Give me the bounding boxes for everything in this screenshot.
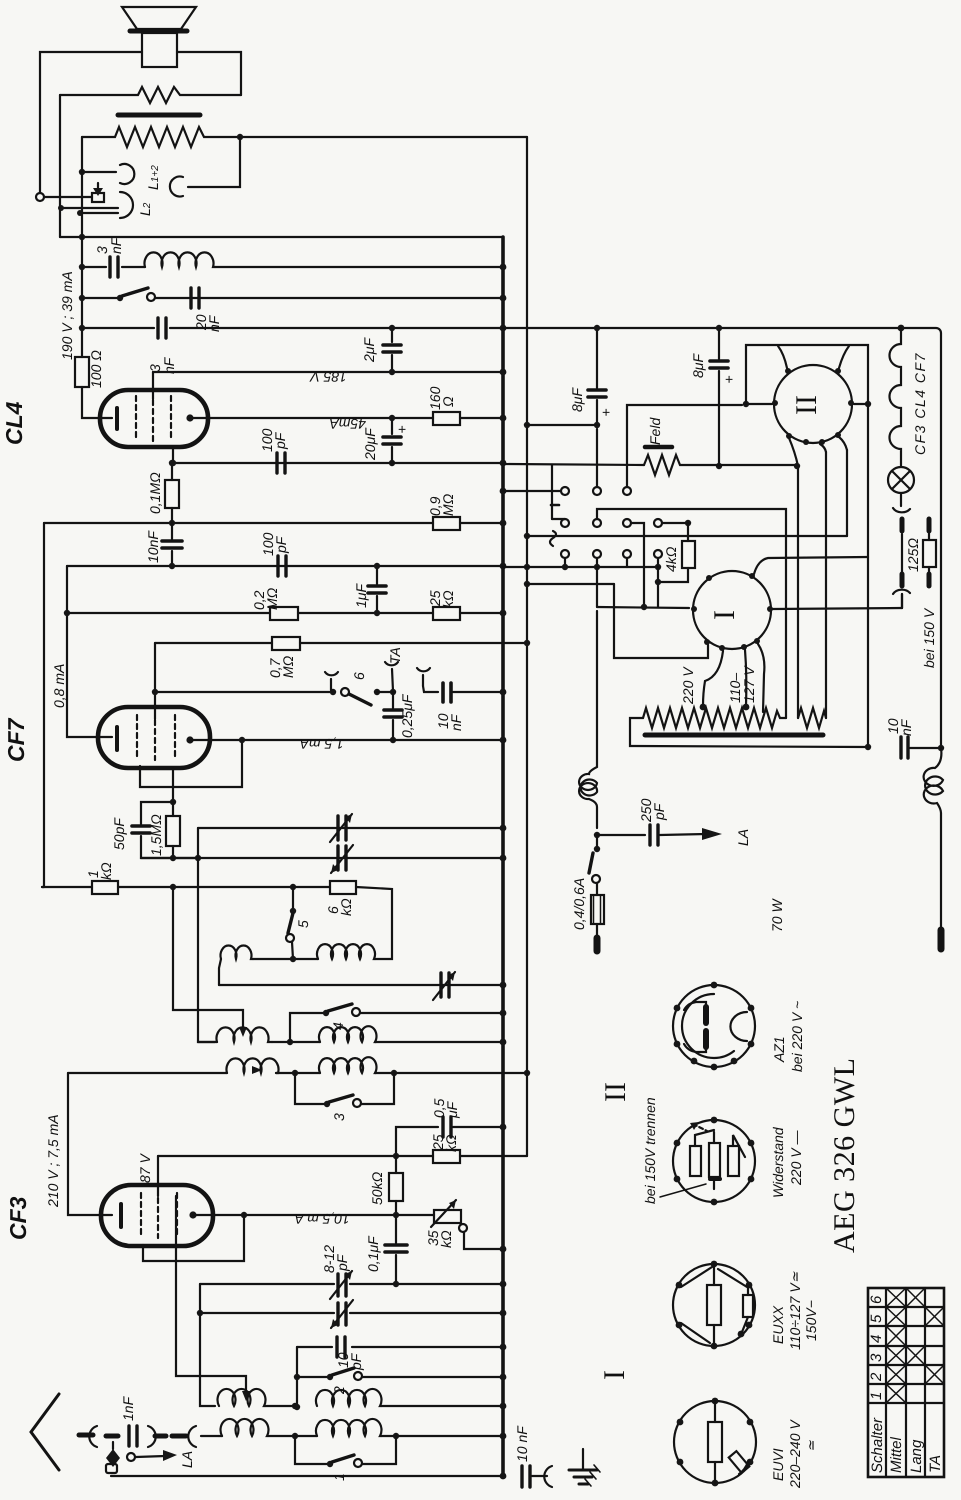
node bbox=[287, 1039, 293, 1045]
wire anode row bbox=[190, 417, 503, 419]
label 160 ohm bbox=[427, 386, 456, 410]
wire cathode drop bbox=[67, 566, 112, 737]
svg-text:2: 2 bbox=[868, 1372, 885, 1382]
node bbox=[79, 264, 85, 270]
capacitor 20nF bbox=[191, 288, 199, 308]
selector row A bbox=[503, 429, 631, 495]
wire socketI right bbox=[773, 594, 902, 609]
node bbox=[393, 1153, 399, 1159]
terminal circle bbox=[36, 193, 44, 201]
wire bbox=[59, 95, 61, 237]
wire vert 297 bbox=[294, 1347, 300, 1410]
svg-text:100 Ω: 100 Ω bbox=[88, 350, 104, 388]
svg-text:+: + bbox=[725, 371, 733, 387]
svg-text:≃: ≃ bbox=[803, 1440, 819, 1452]
label 100pF2 bbox=[260, 532, 289, 556]
pickup jack bbox=[44, 183, 118, 216]
svg-text:185 V: 185 V bbox=[309, 369, 347, 385]
svg-text:210 V ; 7,5 mA: 210 V ; 7,5 mA bbox=[45, 1114, 61, 1208]
tap arrow coil2 bbox=[239, 1027, 247, 1037]
svg-text:6: 6 bbox=[351, 672, 367, 680]
minus mark bbox=[551, 504, 559, 507]
rail nodes bbox=[524, 422, 530, 646]
label EUVI bbox=[770, 1419, 819, 1489]
svg-text:1nF: 1nF bbox=[120, 1395, 136, 1421]
wire vert 826 bbox=[820, 444, 826, 718]
resistor 125 ohm bbox=[923, 519, 936, 586]
table numbers bbox=[868, 1295, 885, 1400]
capacitor 0.25uF bbox=[384, 692, 402, 743]
bus nodes bbox=[500, 264, 507, 1480]
svg-text:Schalter: Schalter bbox=[869, 1417, 886, 1473]
label 6k bbox=[325, 898, 354, 916]
resistor 1.5M bbox=[166, 802, 180, 858]
node bbox=[237, 134, 243, 140]
wire B4 4k bbox=[662, 520, 691, 526]
svg-text:pF: pF bbox=[651, 802, 667, 821]
svg-text:6: 6 bbox=[868, 1295, 885, 1304]
transformer core bbox=[645, 733, 823, 738]
svg-text:CF7: CF7 bbox=[3, 717, 29, 762]
svg-text:1: 1 bbox=[868, 1392, 885, 1400]
wire 3nF row bbox=[82, 266, 503, 268]
tube socket II bbox=[772, 365, 854, 445]
wire bbox=[82, 387, 112, 418]
switch 4 bbox=[290, 1004, 503, 1042]
mains transformer winding bbox=[643, 704, 786, 728]
wire C4 down bbox=[655, 567, 661, 607]
transformer core bar bbox=[118, 113, 200, 118]
wire 10pF row bbox=[297, 1346, 503, 1348]
svg-text:CF3: CF3 bbox=[5, 1196, 31, 1240]
label 250pF bbox=[638, 798, 667, 823]
wire tube bottom drop bbox=[172, 768, 174, 802]
tube CL4 bbox=[100, 390, 208, 447]
svg-text:MΩ: MΩ bbox=[280, 655, 296, 678]
wire A3 bbox=[627, 405, 742, 487]
fuse 0.4 0.6A bbox=[591, 883, 604, 951]
svg-text:4: 4 bbox=[868, 1335, 885, 1343]
svg-text:kΩ: kΩ bbox=[440, 590, 456, 608]
wire socketII hook bbox=[746, 345, 871, 407]
node bbox=[169, 563, 175, 569]
svg-text:II: II bbox=[790, 395, 823, 415]
svg-text:EUVI: EUVI bbox=[770, 1448, 786, 1481]
svg-text:0,1μF: 0,1μF bbox=[365, 1235, 381, 1272]
resistor 0.7M bbox=[272, 637, 300, 650]
wire 50pF bottom bbox=[170, 855, 201, 861]
capacitor 1nF bbox=[129, 1426, 137, 1446]
label 10pF bbox=[335, 1352, 364, 1371]
svg-text:0,1MΩ: 0,1MΩ bbox=[147, 472, 163, 514]
label 0.2M bbox=[251, 587, 280, 610]
svg-text:10nF: 10nF bbox=[145, 530, 161, 563]
svg-text:87 V: 87 V bbox=[137, 1153, 153, 1183]
switch 2 bbox=[297, 1368, 503, 1380]
svg-text:3: 3 bbox=[868, 1353, 885, 1362]
capacitor 10nF mains bbox=[901, 737, 944, 758]
svg-text:II: II bbox=[599, 1082, 632, 1102]
node bbox=[169, 520, 175, 526]
transformer secondary winding bbox=[82, 127, 240, 147]
svg-text:pF: pF bbox=[334, 1253, 350, 1272]
label 110-127V bbox=[727, 665, 757, 703]
svg-text:3: 3 bbox=[331, 1113, 347, 1121]
wire bbox=[82, 171, 116, 173]
label 100pF bbox=[259, 428, 288, 452]
resistor 0.1M bbox=[165, 460, 179, 523]
variable capacitor t2 bbox=[331, 845, 353, 873]
svg-text:Feld: Feld bbox=[647, 417, 663, 445]
svg-text:bei 220 V ~: bei 220 V ~ bbox=[789, 1001, 805, 1072]
wire left rail bbox=[81, 137, 83, 357]
svg-text:2μF: 2μF bbox=[361, 337, 377, 363]
LA branch bbox=[106, 1442, 177, 1467]
svg-text:50pF: 50pF bbox=[111, 817, 127, 850]
svg-text:TA: TA bbox=[927, 1455, 944, 1473]
wire 812pF row bbox=[200, 1281, 503, 1287]
label 25k cf3 bbox=[430, 1134, 459, 1152]
resistor 0.2M bbox=[270, 607, 298, 620]
connector link bottom bbox=[893, 574, 910, 608]
coil band4 left bbox=[218, 1389, 296, 1406]
svg-text:220–240 V: 220–240 V bbox=[787, 1419, 803, 1489]
label 3nF bbox=[94, 236, 124, 254]
heater chain bbox=[890, 325, 905, 466]
svg-text:pF: pF bbox=[273, 535, 289, 554]
capacitor 100pF bbox=[277, 453, 285, 473]
label 10nF mains bbox=[885, 718, 914, 736]
wire C row links bbox=[503, 558, 661, 570]
socket fork left bbox=[325, 672, 338, 690]
switch contact bbox=[117, 295, 123, 301]
wire grid coil tap CF3 bbox=[176, 1196, 250, 1401]
tilde mark bbox=[550, 531, 556, 546]
nodes row2 bbox=[292, 1070, 530, 1076]
svg-text:I: I bbox=[708, 610, 741, 620]
svg-text:Widerstand: Widerstand bbox=[770, 1126, 786, 1198]
svg-text:LA: LA bbox=[735, 829, 751, 846]
wire cathode row bbox=[173, 447, 503, 463]
ground symbol bbox=[569, 1449, 600, 1486]
label 812pF bbox=[321, 1245, 350, 1273]
ground lug bbox=[106, 1464, 117, 1473]
wire vert 847 bbox=[527, 437, 847, 536]
connector link top bbox=[893, 493, 910, 572]
socket EUVI bbox=[674, 1398, 756, 1487]
node bbox=[64, 610, 70, 616]
wire vert 198 bbox=[198, 828, 215, 1042]
wire speaker left bbox=[40, 52, 142, 193]
svg-text:nF: nF bbox=[448, 713, 464, 731]
node bbox=[170, 460, 176, 466]
switch 5 bbox=[286, 887, 296, 959]
wire mains loop bbox=[527, 584, 708, 658]
capacitor 3nF bbox=[110, 257, 118, 277]
capacitor 10nF ground bbox=[522, 1466, 547, 1487]
coil band1 right bbox=[317, 944, 375, 959]
fuse switch bbox=[589, 835, 600, 883]
node bbox=[79, 169, 85, 175]
svg-text:MΩ: MΩ bbox=[264, 587, 280, 610]
svg-text:pF: pF bbox=[272, 431, 288, 450]
svg-text:kΩ: kΩ bbox=[443, 1134, 459, 1152]
lamp bbox=[888, 467, 914, 493]
socket EUXX bbox=[673, 1261, 755, 1350]
resistor 35k variable bbox=[431, 1200, 503, 1249]
node bbox=[79, 234, 85, 240]
label 0.7M bbox=[267, 655, 296, 678]
wire band1 left drop bbox=[219, 959, 221, 985]
socket AZ1 bbox=[673, 982, 755, 1071]
tube CF7 bbox=[98, 707, 210, 768]
svg-text:AEG 326 GWL: AEG 326 GWL bbox=[828, 1058, 861, 1253]
wire screen strap CF7 bbox=[140, 740, 242, 787]
wire socketII left pin bbox=[743, 401, 772, 407]
svg-text:50kΩ: 50kΩ bbox=[369, 1171, 385, 1205]
table headers bbox=[869, 1417, 944, 1473]
capacitor 10nF grid bbox=[162, 523, 182, 566]
coil L1+2 arc left bbox=[120, 164, 134, 184]
wire 3nF2 row bbox=[82, 327, 503, 329]
capacitor 100pF2 bbox=[278, 556, 286, 576]
wire anode CF3 row bbox=[193, 1212, 434, 1218]
coil band4 right bbox=[292, 1389, 503, 1409]
svg-text:bei 150 V: bei 150 V bbox=[921, 607, 937, 668]
coil L2 arc left bbox=[120, 192, 133, 218]
node bbox=[239, 737, 245, 743]
svg-text:45mA: 45mA bbox=[329, 416, 366, 432]
wire grid CL4 bbox=[152, 372, 154, 399]
svg-text:nF: nF bbox=[206, 314, 222, 332]
variable capacitor 812pF bbox=[330, 1271, 352, 1299]
Feld field coil bbox=[503, 447, 797, 475]
wire grid CF3 bbox=[157, 1156, 159, 1196]
capacitor 0.1uF bbox=[385, 1215, 407, 1284]
selector row C bbox=[561, 550, 662, 558]
jack arcs bbox=[89, 1426, 118, 1447]
svg-text:1,5 mA: 1,5 mA bbox=[300, 736, 344, 752]
svg-text:1μF: 1μF bbox=[353, 583, 369, 608]
tube socket I bbox=[691, 571, 773, 651]
svg-text:125Ω: 125Ω bbox=[905, 538, 921, 572]
wire varcap row1 bbox=[198, 827, 503, 829]
wire vert 173 to coil tap bbox=[173, 887, 243, 1030]
wire B3 bbox=[631, 523, 644, 607]
capacitor 20uF bbox=[383, 415, 401, 466]
plug links bbox=[148, 1426, 219, 1447]
wire bbox=[460, 522, 503, 524]
heater winding bbox=[798, 708, 826, 728]
wire vert 798 bbox=[789, 438, 800, 718]
label 1k bbox=[85, 862, 114, 880]
coil band3 left bbox=[227, 1058, 279, 1074]
svg-text:bei 150V trennen: bei 150V trennen bbox=[642, 1097, 658, 1204]
wire grid CF7 bbox=[154, 643, 156, 719]
resistor 6k bbox=[293, 881, 392, 959]
winding left end bbox=[630, 718, 868, 747]
svg-text:TA: TA bbox=[387, 647, 403, 664]
svg-text:220 V: 220 V bbox=[680, 666, 696, 705]
svg-text:20μF: 20μF bbox=[362, 427, 378, 461]
wire to bus top bbox=[240, 136, 527, 138]
socket Widerstand bbox=[673, 1117, 755, 1206]
capacitor 1uF bbox=[368, 563, 386, 616]
switch 1 bbox=[295, 1436, 396, 1467]
svg-text:Mittel: Mittel bbox=[888, 1436, 905, 1473]
switch lever bbox=[122, 288, 148, 296]
wire vert 200 bbox=[200, 1284, 215, 1406]
svg-text:MΩ: MΩ bbox=[440, 493, 456, 516]
svg-text:Ω: Ω bbox=[440, 396, 456, 407]
wire 185V row bbox=[153, 371, 503, 373]
wire bottom coil row bbox=[219, 1435, 222, 1437]
wire 0.2M row bbox=[67, 612, 503, 614]
wire switch row bbox=[82, 297, 503, 299]
wire 87V row bbox=[158, 1155, 527, 1157]
wire socketI top right bbox=[754, 557, 868, 574]
label 0.5uF bbox=[431, 1098, 460, 1119]
svg-text:4kΩ: 4kΩ bbox=[663, 546, 679, 572]
svg-text:0,8 mA: 0,8 mA bbox=[51, 664, 67, 708]
wire TA row bbox=[152, 689, 336, 695]
jack arc ground bbox=[544, 1466, 552, 1487]
capacitor 10pF bbox=[337, 1337, 345, 1357]
label 8uF b bbox=[690, 353, 733, 387]
resistor 50k bbox=[389, 1156, 403, 1215]
switch 3 bbox=[295, 1073, 394, 1107]
second rail bbox=[526, 137, 528, 1156]
wire socketII right pin bbox=[854, 404, 871, 750]
wire top bus line bbox=[60, 236, 503, 238]
wire screen strap CF3 bbox=[143, 1215, 244, 1261]
svg-text:190 V ; 39 mA: 190 V ; 39 mA bbox=[59, 271, 75, 360]
wire anode CF7 row bbox=[190, 739, 503, 741]
coil band1 left bbox=[221, 946, 254, 959]
coil band5 right bbox=[295, 1419, 503, 1439]
wire ground row bbox=[111, 1475, 503, 1477]
table X marks bbox=[886, 1288, 944, 1403]
wire trimmer row bbox=[197, 1310, 503, 1316]
svg-text:150V−: 150V− bbox=[803, 1300, 819, 1341]
capacitor 8uF b bbox=[710, 325, 728, 469]
choke coil bbox=[145, 252, 216, 267]
label 25k bbox=[427, 590, 456, 608]
tube CF3 bbox=[101, 1185, 213, 1246]
capacitor 8uF a bbox=[588, 325, 606, 428]
wire left rail CF7 bbox=[43, 523, 45, 887]
node bbox=[374, 689, 380, 695]
main bus bbox=[501, 237, 505, 1476]
capacitor 10nF ta bbox=[443, 683, 503, 702]
capacitor 3nF2 bbox=[158, 318, 166, 338]
svg-text:110÷127 V≃: 110÷127 V≃ bbox=[787, 1271, 803, 1350]
selector row B bbox=[552, 465, 662, 527]
node bbox=[395, 1157, 397, 1159]
wire switch line bbox=[597, 567, 689, 610]
switch 6 lever bbox=[349, 694, 371, 705]
wire varcap row2 bbox=[141, 857, 503, 859]
resistor 25k cf3 bbox=[433, 1150, 460, 1163]
svg-text:8μF: 8μF bbox=[569, 387, 585, 412]
svg-text:10,5 m A: 10,5 m A bbox=[294, 1211, 350, 1227]
wire 0.7M row bbox=[155, 642, 527, 644]
resistor 25k bbox=[433, 607, 460, 620]
switch table bbox=[868, 1288, 944, 1477]
svg-text:0,25μF: 0,25μF bbox=[399, 693, 415, 738]
svg-text:8μF: 8μF bbox=[690, 353, 706, 378]
wire row2 left bbox=[68, 1072, 227, 1074]
svg-text:nF: nF bbox=[108, 236, 124, 254]
label 20uF plus bbox=[362, 421, 406, 461]
svg-text:1,5MΩ: 1,5MΩ bbox=[148, 814, 164, 856]
svg-text:70 W: 70 W bbox=[769, 898, 785, 932]
node bbox=[170, 884, 296, 890]
svg-text:+: + bbox=[602, 404, 610, 420]
wire bbox=[188, 137, 240, 187]
resistor output primary bbox=[60, 87, 241, 103]
wire socketI taps bbox=[703, 644, 764, 712]
wire socketII top pins bbox=[778, 346, 849, 368]
svg-text:127 V: 127 V bbox=[741, 665, 757, 703]
svg-text:5: 5 bbox=[295, 920, 311, 928]
svg-text:I: I bbox=[598, 1370, 631, 1380]
resistor 160 ohm bbox=[433, 412, 460, 425]
label EUXX bbox=[770, 1271, 819, 1350]
svg-text:4: 4 bbox=[330, 1022, 346, 1030]
switch 6 pivot bbox=[341, 688, 349, 696]
wire varcap row3 bbox=[219, 984, 503, 986]
svg-text:220 V —: 220 V — bbox=[788, 1130, 804, 1186]
LA line coil bbox=[579, 611, 600, 838]
label 8uF a bbox=[569, 387, 610, 420]
node bbox=[79, 325, 85, 331]
resistor 1k bbox=[42, 881, 293, 894]
wire HT top bbox=[503, 328, 941, 748]
socket fork right bbox=[417, 668, 438, 692]
switch pivot bbox=[147, 293, 155, 301]
resistor 0.9M bbox=[433, 517, 460, 530]
svg-text:5: 5 bbox=[868, 1314, 885, 1323]
svg-text:Lang: Lang bbox=[908, 1439, 925, 1473]
svg-text:CL4: CL4 bbox=[1, 401, 27, 445]
svg-text:CF3 CL4 CF7: CF3 CL4 CF7 bbox=[912, 352, 928, 455]
label 0.9M bbox=[427, 493, 456, 516]
wire bbox=[253, 956, 318, 962]
coil band2 left bbox=[198, 1027, 272, 1042]
socket fork TA bbox=[377, 662, 398, 695]
variable capacitor t4 bbox=[331, 1300, 353, 1328]
wire 210V rail bbox=[68, 1073, 112, 1215]
wire B2 mains bbox=[597, 509, 786, 718]
svg-text:0,4/0,6A: 0,4/0,6A bbox=[571, 878, 587, 930]
resistor 100 ohm bbox=[75, 357, 89, 387]
svg-text:+: + bbox=[398, 421, 406, 437]
svg-text:μF: μF bbox=[444, 1100, 460, 1119]
label Widerstand bbox=[770, 1126, 804, 1198]
svg-text:1: 1 bbox=[331, 1473, 347, 1481]
label 3nF2 bbox=[147, 356, 177, 374]
variable capacitor t3 bbox=[433, 972, 455, 1000]
antenna bbox=[31, 1394, 93, 1470]
svg-text:kΩ: kΩ bbox=[98, 862, 114, 880]
svg-text:kΩ: kΩ bbox=[438, 1230, 454, 1248]
label 20nF bbox=[193, 314, 222, 332]
capacitor 250pF bbox=[597, 825, 722, 845]
svg-text:kΩ: kΩ bbox=[338, 898, 354, 916]
variable capacitor t1 bbox=[330, 814, 352, 842]
wire grid2 row bbox=[44, 522, 433, 524]
